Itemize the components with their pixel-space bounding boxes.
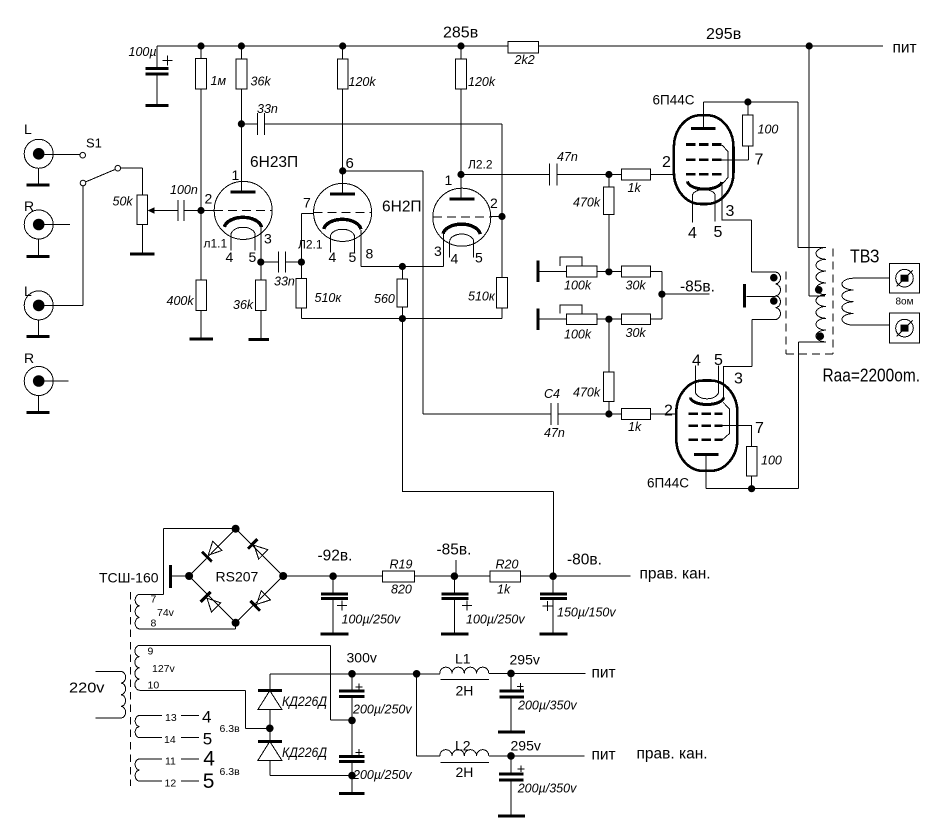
svg-text:36k: 36k [233, 298, 254, 312]
svg-text:ТВЗ: ТВЗ [850, 246, 880, 267]
svg-text:R20: R20 [496, 558, 519, 572]
svg-text:560: 560 [374, 292, 395, 306]
svg-text:4: 4 [692, 353, 701, 370]
svg-text:Л2.2: Л2.2 [468, 158, 493, 172]
svg-text:12: 12 [165, 778, 177, 790]
svg-text:6П44С: 6П44С [647, 476, 689, 491]
svg-text:ТСШ-160: ТСШ-160 [99, 570, 159, 586]
svg-text:36k: 36k [251, 75, 272, 89]
svg-text:200µ/250v: 200µ/250v [352, 768, 412, 782]
svg-text:13: 13 [165, 712, 177, 724]
svg-text:200µ/350v: 200µ/350v [517, 782, 577, 796]
svg-text:6Н23П: 6Н23П [250, 154, 298, 171]
svg-text:33n: 33n [274, 275, 295, 289]
svg-text:120k: 120k [349, 75, 377, 89]
svg-text:1: 1 [445, 172, 453, 188]
svg-text:Л2.1: Л2.1 [298, 238, 323, 252]
svg-text:пит: пит [592, 746, 616, 763]
svg-text:150µ/150v: 150µ/150v [557, 606, 616, 620]
svg-text:R: R [24, 350, 34, 366]
svg-text:6.3в: 6.3в [220, 723, 241, 735]
svg-text:11: 11 [165, 756, 176, 768]
svg-text:S1: S1 [86, 136, 102, 151]
svg-text:470k: 470k [573, 196, 601, 210]
svg-text:4: 4 [451, 251, 459, 267]
svg-text:510к: 510к [468, 290, 496, 304]
svg-text:120k: 120k [468, 75, 496, 89]
svg-text:5: 5 [349, 249, 357, 265]
svg-text:КД226Д: КД226Д [282, 694, 327, 709]
svg-text:1k: 1k [497, 583, 511, 597]
svg-text:6: 6 [346, 155, 354, 172]
svg-text:л1.1: л1.1 [204, 237, 228, 251]
svg-text:4: 4 [203, 748, 215, 771]
svg-text:прав. кан.: прав. кан. [640, 565, 711, 582]
svg-text:100k: 100k [564, 279, 592, 293]
svg-text:14: 14 [164, 734, 176, 746]
svg-text:820: 820 [391, 583, 412, 597]
svg-text:285в: 285в [443, 25, 478, 42]
svg-text:9: 9 [148, 646, 154, 658]
svg-text:L: L [24, 121, 32, 137]
svg-text:-85в.: -85в. [680, 279, 715, 296]
svg-text:7: 7 [755, 152, 764, 169]
svg-text:100k: 100k [564, 328, 592, 342]
svg-text:2: 2 [664, 403, 673, 420]
svg-text:6.3в: 6.3в [220, 766, 241, 778]
svg-text:L2: L2 [455, 738, 471, 754]
svg-text:30k: 30k [626, 279, 647, 293]
svg-text:6Н2П: 6Н2П [382, 199, 422, 216]
svg-text:3: 3 [726, 203, 735, 220]
svg-text:1k: 1k [628, 181, 642, 195]
svg-text:100: 100 [761, 454, 782, 468]
svg-text:3: 3 [734, 371, 743, 388]
svg-text:295в: 295в [706, 26, 741, 43]
svg-text:510к: 510к [315, 291, 343, 305]
svg-text:7: 7 [151, 594, 157, 606]
svg-text:2: 2 [205, 191, 213, 207]
svg-text:5: 5 [714, 224, 723, 241]
svg-text:прав. кан.: прав. кан. [637, 746, 708, 763]
svg-text:127v: 127v [152, 663, 176, 675]
svg-text:4: 4 [226, 249, 234, 265]
svg-text:300v: 300v [347, 650, 377, 666]
svg-text:5: 5 [203, 770, 215, 793]
svg-text:4: 4 [329, 249, 337, 265]
svg-text:C4: C4 [544, 387, 560, 401]
svg-text:5: 5 [249, 249, 257, 265]
svg-text:7: 7 [755, 420, 764, 437]
svg-text:100: 100 [758, 123, 779, 137]
svg-text:200µ/350v: 200µ/350v [517, 699, 577, 713]
svg-text:5: 5 [203, 730, 212, 749]
svg-text:-92в.: -92в. [318, 548, 353, 565]
svg-text:5: 5 [714, 352, 723, 369]
svg-text:Raa=2200om.: Raa=2200om. [823, 366, 921, 386]
svg-text:L: L [24, 283, 32, 299]
svg-text:-85в.: -85в. [437, 542, 472, 559]
svg-text:8ом: 8ом [896, 297, 914, 308]
svg-text:8: 8 [151, 618, 157, 630]
svg-text:RS207: RS207 [216, 569, 259, 585]
svg-text:5: 5 [475, 250, 483, 266]
svg-text:2k2: 2k2 [514, 53, 535, 67]
svg-text:47n: 47n [557, 150, 578, 164]
svg-text:2: 2 [490, 195, 498, 211]
svg-text:-80в.: -80в. [567, 552, 602, 569]
svg-text:3: 3 [434, 243, 442, 259]
svg-text:400k: 400k [167, 294, 195, 308]
svg-text:100µ/250v: 100µ/250v [466, 613, 525, 627]
svg-text:10: 10 [148, 680, 160, 692]
svg-text:470k: 470k [573, 386, 601, 400]
svg-text:4: 4 [688, 225, 697, 242]
svg-text:пит: пит [893, 39, 917, 56]
svg-text:100µ: 100µ [129, 45, 157, 59]
svg-text:L1: L1 [455, 651, 471, 667]
svg-text:47n: 47n [544, 426, 565, 440]
svg-text:50k: 50k [113, 195, 134, 209]
svg-text:R: R [24, 198, 34, 214]
svg-text:6П44С: 6П44С [653, 93, 695, 108]
svg-text:8: 8 [366, 246, 374, 262]
svg-text:2: 2 [662, 154, 671, 171]
svg-text:4: 4 [202, 708, 211, 727]
svg-text:295v: 295v [511, 738, 541, 754]
svg-text:1: 1 [232, 167, 240, 183]
svg-text:100n: 100n [170, 183, 198, 197]
svg-text:R19: R19 [390, 558, 413, 572]
svg-text:2H: 2H [456, 764, 474, 780]
svg-text:100µ/250v: 100µ/250v [342, 613, 401, 627]
svg-text:30k: 30k [626, 326, 647, 340]
svg-text:3: 3 [264, 231, 272, 247]
svg-text:КД226Д: КД226Д [282, 745, 327, 760]
svg-text:1k: 1k [628, 420, 642, 434]
svg-text:220v: 220v [69, 680, 105, 697]
svg-text:пит: пит [592, 664, 616, 681]
svg-text:200µ/250v: 200µ/250v [352, 703, 412, 717]
svg-text:295v: 295v [510, 652, 540, 668]
svg-text:2H: 2H [456, 683, 474, 699]
svg-text:74v: 74v [157, 607, 175, 619]
svg-text:33n: 33n [257, 102, 278, 116]
svg-text:7: 7 [303, 195, 311, 211]
svg-text:1м: 1м [211, 74, 227, 88]
